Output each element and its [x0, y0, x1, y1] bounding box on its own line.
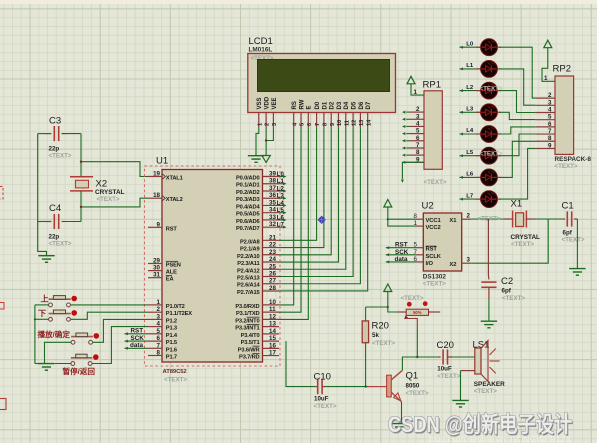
capacitor C2	[481, 281, 496, 283]
RP1 pin 9	[410, 161, 424, 163]
svg-text:L2: L2	[277, 186, 285, 192]
capacitor C20	[439, 356, 441, 358]
svg-text:10: 10	[337, 120, 343, 126]
svg-text:<TEXT>: <TEXT>	[97, 196, 120, 203]
svg-text:2: 2	[157, 306, 161, 313]
wire button3 right to U1 P1.2	[93, 319, 149, 342]
RP2 pin 5	[535, 119, 555, 121]
svg-text:AT89C52: AT89C52	[163, 369, 188, 375]
ground (left crystal circuit)	[38, 255, 54, 257]
svg-text:L3: L3	[466, 107, 474, 113]
LED L6	[460, 176, 481, 178]
svg-text:9: 9	[157, 221, 161, 228]
svg-text:P2.7/A15: P2.7/A15	[237, 290, 260, 296]
LCD1 LM016L body	[248, 54, 396, 113]
svg-text:data: data	[395, 256, 408, 263]
svg-text:RST: RST	[166, 226, 178, 232]
potentiometer right wire	[429, 311, 441, 313]
wire LCD D7 to U1 P2.7	[279, 128, 368, 291]
svg-text:L6: L6	[466, 172, 474, 178]
RP2 pin 3	[535, 104, 555, 106]
wire LS1 bottom pin to ground	[461, 370, 475, 372]
svg-text:34: 34	[269, 207, 276, 214]
U1 pin 38 P0.1/AD1 net L1	[263, 183, 280, 185]
wire LED L2 to RP2 pin 4	[499, 91, 535, 113]
svg-text:35: 35	[269, 199, 276, 206]
U1 pin 6 P1.5	[148, 340, 162, 342]
U1 AT89C52 body	[162, 170, 263, 363]
RP2 pin 9	[535, 147, 555, 149]
svg-text:P0.7/AD7: P0.7/AD7	[236, 226, 259, 232]
svg-text:1: 1	[257, 123, 263, 126]
svg-text:<TEXT>: <TEXT>	[49, 153, 72, 160]
svg-text:RP1: RP1	[423, 80, 441, 91]
svg-text:19: 19	[153, 171, 160, 178]
svg-text:10: 10	[269, 299, 276, 306]
U1 pin 17 P3.7/RD	[263, 355, 280, 357]
svg-text:10uF: 10uF	[314, 396, 329, 403]
wire button2 right to U1 P1.1	[70, 312, 148, 319]
svg-text:<TEXT>: <TEXT>	[401, 295, 424, 302]
wire U2 X2 to crystal right	[471, 219, 548, 263]
svg-text:SCLK: SCLK	[426, 254, 442, 260]
svg-text:5: 5	[416, 128, 420, 135]
net label RST wire at U1 P1.4	[125, 333, 149, 335]
CSDN watermark	[388, 414, 572, 436]
wire LCD VEE join VDD	[266, 128, 273, 141]
U1 pin 5 P1.4	[148, 333, 162, 335]
svg-text:D3: D3	[337, 101, 343, 109]
U2 pin 7 SCLK	[416, 254, 424, 256]
power arrow (RP2 pin1)	[544, 40, 552, 48]
U2 pin 2 X1	[462, 218, 472, 220]
wire Q1 emitter to ground	[401, 402, 403, 424]
U1 pin 19 XTAL1	[148, 176, 162, 178]
svg-text:6: 6	[548, 121, 552, 128]
wire crystal to C1	[526, 218, 535, 220]
U2 pin 8 VCC1	[416, 218, 424, 220]
U1 pin 24 P2.3/A11	[263, 261, 280, 263]
svg-text:27: 27	[269, 278, 276, 285]
wire LCD D3 to U1 P2.3	[279, 128, 339, 262]
U1 pin 28 P2.7/A15	[263, 290, 280, 292]
overline P3.7/RD	[253, 352, 260, 354]
svg-text:18: 18	[153, 192, 160, 199]
svg-text:24: 24	[269, 256, 276, 263]
svg-text:<TEXT>: <TEXT>	[502, 295, 525, 302]
LED L1	[460, 68, 481, 70]
wire C1 to ground	[576, 219, 578, 268]
svg-text:P2.5/A13: P2.5/A13	[237, 276, 260, 282]
U1 pin 33 P0.6/AD6 net L6	[263, 219, 280, 221]
wire LCD VDD to power arrow	[265, 128, 267, 156]
svg-text:P2.0/A8: P2.0/A8	[240, 239, 260, 245]
svg-text:P1.7: P1.7	[166, 355, 177, 361]
potentiometer RV1	[398, 311, 406, 313]
svg-text:C3: C3	[49, 116, 61, 127]
power arrow (U2 VCC)	[384, 200, 392, 208]
svg-text:L1: L1	[466, 63, 474, 69]
svg-text:39: 39	[269, 171, 276, 178]
ground (Q1 emitter)	[391, 423, 407, 425]
svg-text:L5: L5	[466, 150, 474, 156]
svg-text:RST: RST	[426, 247, 438, 253]
svg-text:<TEXT>: <TEXT>	[474, 388, 497, 395]
U1 pin 29 PSEN	[148, 263, 162, 265]
wire button4 right to U1 P1.3	[92, 327, 148, 364]
svg-text:5: 5	[548, 114, 552, 121]
svg-text:12: 12	[269, 313, 276, 320]
U1 pin 35 P0.4/AD4 net L4	[263, 204, 280, 206]
svg-text:5k: 5k	[372, 332, 379, 339]
svg-text:7: 7	[414, 249, 418, 256]
U1 pin 2 P1.1/T2EX	[148, 311, 162, 313]
svg-text:5: 5	[300, 123, 306, 126]
ground (C1)	[569, 268, 585, 270]
svg-text:X1: X1	[511, 199, 523, 210]
svg-text:P1.0/T2: P1.0/T2	[166, 304, 185, 310]
svg-text:L0: L0	[466, 41, 474, 47]
svg-text:31: 31	[153, 272, 160, 279]
wire Q1 collector up to C20 node	[402, 357, 438, 370]
RP1 pin 5	[410, 133, 424, 135]
U1 pin 23 P2.2/A10	[263, 254, 280, 256]
svg-text:P1.3: P1.3	[166, 326, 177, 332]
svg-text:<TEXT>: <TEXT>	[423, 281, 446, 288]
U1 pin 22 P2.1/A9	[263, 247, 280, 249]
wire button2 left to rail	[35, 318, 49, 320]
svg-text:3: 3	[272, 123, 278, 126]
svg-text:33: 33	[269, 214, 276, 221]
svg-text:16: 16	[269, 342, 276, 349]
svg-text:13: 13	[359, 120, 365, 126]
LCD1 screen	[258, 60, 390, 92]
RP2 pin 2	[535, 97, 555, 99]
svg-text:13: 13	[269, 321, 276, 328]
svg-text:P2.1/A9: P2.1/A9	[240, 247, 260, 253]
svg-text:29: 29	[153, 258, 160, 265]
svg-text:VDD: VDD	[265, 96, 271, 109]
svg-text:8050: 8050	[406, 382, 420, 389]
svg-text:LCD1: LCD1	[249, 36, 273, 47]
svg-text:<TEXT>: <TEXT>	[406, 390, 429, 397]
svg-text:5: 5	[414, 242, 418, 249]
svg-text:D5: D5	[352, 101, 358, 109]
svg-text:P3.3/INT1: P3.3/INT1	[235, 326, 259, 332]
svg-text:CRYSTAL: CRYSTAL	[511, 234, 541, 241]
svg-text:3: 3	[157, 313, 161, 320]
wire ground rail buttons	[34, 305, 36, 364]
svg-text:L3: L3	[277, 194, 285, 200]
svg-text:1: 1	[414, 89, 418, 96]
U1 pin 34 P0.5/AD5 net L5	[263, 212, 280, 214]
svg-text:XTAL2: XTAL2	[166, 197, 183, 203]
svg-text:P0.6/AD6: P0.6/AD6	[236, 219, 259, 225]
svg-text:PSEN: PSEN	[166, 263, 181, 269]
svg-text:17: 17	[269, 350, 276, 357]
svg-text:12: 12	[352, 120, 358, 126]
crystal X2	[80, 134, 82, 177]
svg-text:P0.5/AD5: P0.5/AD5	[236, 212, 259, 218]
LED L5	[460, 155, 481, 157]
wire LCD control to U1 P3	[279, 128, 294, 305]
U2 DS1302 body	[423, 213, 461, 271]
svg-text:E: E	[307, 105, 313, 109]
capacitor C1	[563, 218, 565, 220]
svg-text:C20: C20	[437, 340, 454, 351]
svg-text:X2: X2	[96, 179, 108, 190]
svg-text:X2: X2	[449, 262, 456, 268]
LED L4	[460, 133, 481, 135]
U2 pin 1 VCC2	[416, 225, 424, 227]
svg-text:P1.1/T2EX: P1.1/T2EX	[166, 311, 193, 317]
wire LED L3 to RP2 pin 5	[499, 112, 535, 119]
RP1 pin 8	[410, 154, 424, 156]
svg-text:15: 15	[269, 335, 276, 342]
svg-text:P1.2: P1.2	[166, 318, 177, 324]
RP2 resistor pack body	[555, 76, 574, 154]
svg-text:下: 下	[38, 309, 46, 318]
svg-text:L4: L4	[277, 201, 285, 207]
svg-text:<TEXT>: <TEXT>	[555, 163, 578, 170]
wire button3 left down to ground rail	[45, 342, 72, 363]
wire LED L7 to RP2 pin 9	[499, 148, 535, 199]
svg-text:P1.5: P1.5	[166, 340, 177, 346]
button K2 (down)	[49, 317, 53, 321]
svg-text:8: 8	[416, 149, 420, 156]
svg-text:Q1: Q1	[406, 371, 419, 382]
U2 pin 3 X2	[462, 262, 472, 264]
svg-text:RP2: RP2	[553, 64, 571, 75]
svg-text:3: 3	[416, 113, 420, 120]
overline P3.3/INT1	[247, 323, 260, 325]
U1 pin 9 RST	[148, 226, 162, 228]
svg-text:P3.2/INT0: P3.2/INT0	[235, 318, 259, 324]
svg-text:37: 37	[269, 185, 276, 192]
svg-text:14: 14	[366, 119, 372, 126]
U1 pin 37 P0.2/AD2 net L2	[263, 190, 280, 192]
U1 pin 14 P3.4/T0	[263, 333, 280, 335]
svg-text:6: 6	[414, 256, 418, 263]
ground (buttons)	[38, 363, 54, 365]
wire LED L0 to RP2 pin 2	[499, 47, 535, 98]
RP2 pin 4	[535, 111, 555, 113]
U1 pin 3 P1.2	[148, 318, 162, 320]
svg-text:上: 上	[41, 294, 49, 304]
button K4 (pause/return)	[71, 362, 75, 366]
svg-text:P2.4/A12: P2.4/A12	[237, 268, 260, 274]
svg-text:U2: U2	[422, 201, 434, 212]
U1 pin 1 P1.0/T2	[148, 304, 162, 306]
svg-text:P0.1/AD1: P0.1/AD1	[236, 183, 259, 189]
wire power to RP1 pin 1	[411, 84, 424, 95]
svg-text:VCC2: VCC2	[426, 225, 441, 231]
svg-text:RW: RW	[299, 99, 305, 109]
LED L7	[460, 198, 481, 200]
svg-text:R20: R20	[372, 321, 389, 332]
wire LED L4 to RP2 pin 6	[499, 127, 535, 134]
button K1 (up)	[49, 303, 53, 307]
svg-text:4: 4	[416, 120, 420, 127]
svg-text:<TEXT>: <TEXT>	[478, 216, 501, 223]
edge component fragment left 3	[0, 399, 6, 410]
RP1 resistor pack body	[424, 91, 442, 170]
svg-text:9: 9	[548, 142, 552, 149]
U1 pin 39 P0.0/AD0 net L0	[263, 176, 280, 178]
svg-text:11: 11	[344, 120, 350, 126]
svg-text:L5: L5	[277, 208, 285, 214]
wire power to R20 and pot	[388, 292, 398, 313]
wire LCD D2 to U1 P2.2	[279, 128, 331, 255]
LED L3	[460, 111, 481, 113]
blue origin marker	[318, 216, 326, 224]
U2 pin 5 RST	[416, 247, 424, 249]
svg-text:1: 1	[414, 220, 418, 227]
svg-text:P2.2/A10: P2.2/A10	[237, 254, 260, 260]
wire button1 left to rail	[35, 304, 49, 306]
svg-text:SCK: SCK	[395, 249, 409, 256]
svg-text:<TEXT>: <TEXT>	[480, 150, 503, 157]
wire U2 X1 to crystal	[471, 218, 504, 220]
svg-text:6pf: 6pf	[502, 288, 512, 295]
svg-text:D4: D4	[344, 101, 350, 109]
LED L0	[460, 46, 481, 48]
ground (LCD VSS)	[248, 155, 264, 157]
wire LCD D1 to U1 P2.1	[279, 128, 324, 248]
RP1 pin 7	[410, 147, 424, 149]
wire button1 right to U1 P1.0	[70, 304, 148, 306]
wire LED L6 to RP2 pin 8	[499, 141, 535, 177]
svg-text:L6: L6	[277, 215, 285, 221]
svg-text:P0.2/AD2: P0.2/AD2	[236, 190, 259, 196]
svg-text:U1: U1	[156, 156, 168, 167]
svg-text:11: 11	[269, 306, 276, 313]
svg-text:8: 8	[157, 350, 161, 357]
svg-text:22: 22	[269, 242, 276, 249]
svg-text:22p: 22p	[49, 146, 60, 153]
U1 pin 15 P3.5/T1	[263, 340, 280, 342]
svg-text:P3.0/RXD: P3.0/RXD	[235, 304, 259, 310]
U1 pin 21 P2.0/A8	[263, 239, 280, 241]
wire X1 node to C2	[487, 219, 489, 275]
svg-text:D1: D1	[322, 101, 328, 109]
svg-text:播放/确定: 播放/确定	[38, 329, 71, 339]
svg-text:<TEXT>: <TEXT>	[424, 179, 447, 186]
svg-text:1: 1	[544, 75, 548, 82]
transistor Q1 8050	[387, 375, 392, 397]
svg-text:6: 6	[416, 135, 420, 142]
U1 pin 30 ALE	[148, 270, 162, 272]
svg-text:D7: D7	[366, 101, 372, 109]
resistor R20	[365, 307, 367, 321]
net label SCK wire at U1 P1.5	[125, 340, 149, 342]
wire R20 bottom to Q1 base node	[365, 343, 367, 387]
U1 pin 13 P3.3/INT1	[263, 326, 280, 328]
RP1 pin 4	[410, 125, 424, 127]
RP1 pin 6	[410, 140, 424, 142]
RP1 pin 3	[410, 118, 424, 120]
svg-text:4: 4	[157, 321, 161, 328]
svg-text:VEE: VEE	[272, 97, 278, 109]
capacitor C4	[38, 221, 52, 223]
svg-text:8: 8	[323, 123, 329, 126]
svg-text:SCK: SCK	[131, 335, 145, 342]
svg-text:6: 6	[307, 123, 313, 126]
RP2 pin 6	[535, 126, 555, 128]
svg-text:D2: D2	[330, 101, 336, 109]
wire LCD D5 to U1 P2.5	[279, 128, 353, 277]
svg-text:C2: C2	[501, 276, 513, 287]
wire XTAL1 net	[81, 162, 148, 177]
svg-text:P3.5/T1: P3.5/T1	[241, 340, 260, 346]
svg-text:21: 21	[269, 234, 276, 241]
svg-text:data: data	[130, 342, 143, 349]
svg-text:9: 9	[330, 123, 336, 126]
svg-text:L1: L1	[277, 179, 285, 185]
svg-text:36: 36	[269, 192, 276, 199]
svg-text:32: 32	[269, 221, 276, 228]
svg-text:7: 7	[416, 142, 420, 149]
svg-text:P0.4/AD4: P0.4/AD4	[236, 204, 260, 210]
svg-text:L2: L2	[466, 85, 474, 91]
U1 pin 31 EA	[148, 277, 162, 279]
U2 pin 6 I/O	[416, 261, 424, 263]
svg-text:<TEXT>: <TEXT>	[164, 377, 187, 384]
RP2 pin 8	[535, 140, 555, 142]
svg-text:C10: C10	[314, 372, 331, 383]
svg-text:<TEXT>: <TEXT>	[314, 403, 337, 410]
svg-text:C1: C1	[562, 201, 574, 212]
wire LCD D4 to U1 P2.4	[279, 128, 346, 270]
U1 pin 10 P3.0/RXD	[263, 304, 280, 306]
ground (C2)	[481, 320, 497, 322]
svg-text:P3.4/T0: P3.4/T0	[241, 333, 260, 339]
svg-text:P1.4: P1.4	[166, 333, 178, 339]
svg-text:2: 2	[265, 123, 271, 126]
svg-text:RST: RST	[395, 242, 408, 249]
svg-text:D6: D6	[359, 101, 365, 109]
svg-text:P1.6: P1.6	[166, 347, 177, 353]
overline P3.6/WR	[253, 345, 260, 347]
svg-text:SPEAKER: SPEAKER	[474, 381, 505, 388]
capacitor C3	[38, 133, 52, 135]
op-amp U1 AT89C52 dashed selection border	[145, 166, 281, 366]
svg-text:<TEXT>: <TEXT>	[49, 241, 72, 248]
U1 pin 8 P1.7	[148, 355, 162, 357]
U1 pin 7 P1.6	[148, 347, 162, 349]
svg-text:P2.6/A14: P2.6/A14	[237, 283, 261, 289]
U1 pin 12 P3.2/INT0	[263, 318, 280, 320]
svg-text:RS: RS	[292, 101, 298, 109]
svg-text:VSS: VSS	[257, 97, 263, 109]
svg-text:<TEXT>: <TEXT>	[437, 373, 460, 380]
edge component fragment left 2	[0, 303, 4, 310]
svg-text:P3.7/RD: P3.7/RD	[239, 355, 259, 361]
net label data wire at U1 P1.6	[125, 347, 149, 349]
wire power to U2 VCC1/VCC2	[388, 207, 416, 226]
wire LCD VSS to ground	[256, 128, 259, 156]
wire LCD D0 to U1 P2.0	[279, 128, 317, 241]
svg-text:10uF: 10uF	[437, 365, 452, 372]
svg-text:7: 7	[157, 342, 161, 349]
svg-text:2: 2	[467, 213, 471, 220]
svg-text:22p: 22p	[49, 234, 60, 241]
wire RP1 pin 9 down	[402, 162, 424, 179]
svg-text:DS1302: DS1302	[423, 273, 447, 280]
svg-text:P2.3/A11: P2.3/A11	[237, 261, 259, 267]
svg-text:8: 8	[548, 135, 552, 142]
svg-text:P3.1/TXD: P3.1/TXD	[236, 311, 259, 317]
